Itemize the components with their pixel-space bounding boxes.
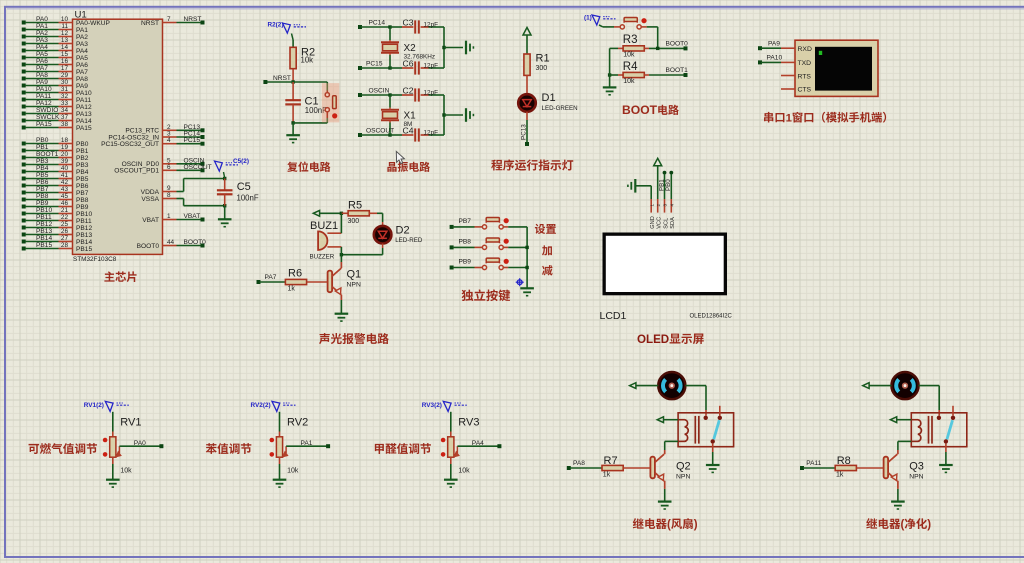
svg-text:NRST: NRST (184, 16, 202, 23)
svg-text:R5: R5 (348, 199, 362, 211)
svg-text:PA11: PA11 (36, 93, 51, 100)
svg-text:PB0: PB0 (36, 137, 49, 144)
svg-text:NPN: NPN (909, 474, 923, 481)
svg-text:32.768KHz: 32.768KHz (404, 54, 436, 61)
svg-text:PB7: PB7 (459, 218, 472, 225)
svg-text:PA8: PA8 (36, 72, 48, 79)
svg-text:PA5: PA5 (76, 55, 88, 62)
svg-text:12pF: 12pF (424, 62, 439, 69)
svg-text:PA10: PA10 (767, 55, 783, 62)
svg-text:21: 21 (61, 207, 69, 214)
svg-text:BOOT0: BOOT0 (137, 243, 160, 250)
svg-text:VCC: VCC (657, 217, 663, 229)
svg-text:PA4: PA4 (76, 48, 88, 55)
svg-text:RV3(2): RV3(2) (422, 402, 442, 409)
svg-text:10k: 10k (623, 78, 635, 85)
svg-text:10k: 10k (120, 468, 132, 475)
svg-text:PA13: PA13 (76, 111, 92, 118)
svg-text:PB9: PB9 (459, 259, 472, 266)
svg-text:T: T (650, 103, 658, 117)
svg-text:38: 38 (61, 121, 69, 128)
svg-text:PA15: PA15 (36, 121, 52, 128)
svg-text:(: ( (901, 519, 905, 531)
svg-text:PA2: PA2 (76, 34, 88, 41)
svg-text:PC15-OSC32_OUT: PC15-OSC32_OUT (101, 141, 159, 148)
svg-text:PA7: PA7 (36, 65, 48, 72)
svg-text:SWCLK: SWCLK (36, 114, 60, 121)
svg-text:VDDA: VDDA (141, 189, 160, 196)
svg-text:45: 45 (61, 193, 69, 200)
svg-text:PA9: PA9 (768, 40, 780, 47)
svg-text:46: 46 (61, 200, 69, 207)
svg-text:PB15: PB15 (36, 242, 52, 249)
svg-text:17: 17 (61, 65, 69, 72)
svg-text:PA1: PA1 (36, 23, 48, 30)
svg-text:SWDIO: SWDIO (36, 107, 58, 114)
svg-text:OLED12864I2C: OLED12864I2C (690, 314, 733, 320)
svg-text:PB0: PB0 (665, 179, 672, 191)
svg-text:PB13: PB13 (36, 228, 52, 235)
svg-text:1: 1 (167, 213, 171, 220)
svg-text:NPN: NPN (347, 282, 361, 289)
svg-text:10k: 10k (287, 468, 299, 475)
svg-text:1k: 1k (603, 472, 611, 479)
svg-text:RV1(2): RV1(2) (84, 402, 104, 409)
svg-text:1: 1 (649, 204, 654, 207)
svg-text:PA11: PA11 (806, 460, 821, 467)
svg-text:9: 9 (167, 185, 171, 192)
svg-text:31: 31 (61, 86, 69, 93)
svg-text:(1): (1) (584, 15, 592, 22)
svg-text:19: 19 (61, 144, 69, 151)
svg-text:NRST: NRST (273, 75, 291, 82)
svg-text:7: 7 (167, 16, 171, 23)
svg-text:PA12: PA12 (76, 104, 92, 111)
svg-text:12pF: 12pF (424, 129, 439, 136)
svg-text:PA3: PA3 (76, 41, 88, 48)
svg-text:11: 11 (61, 23, 68, 30)
svg-text:8M: 8M (404, 121, 413, 128)
svg-text:1k: 1k (836, 472, 844, 479)
svg-text:OSCOUT_PD1: OSCOUT_PD1 (114, 168, 159, 175)
svg-text:PB7: PB7 (76, 190, 89, 197)
svg-text:PA8: PA8 (573, 460, 585, 467)
svg-text:10k: 10k (458, 468, 470, 475)
svg-text:10k: 10k (623, 52, 635, 59)
svg-text:PB5: PB5 (76, 176, 89, 183)
svg-text:): ) (927, 519, 931, 531)
svg-text:27: 27 (61, 235, 69, 242)
svg-text:PB8: PB8 (76, 197, 89, 204)
svg-text:41: 41 (61, 172, 69, 179)
svg-text:29: 29 (61, 72, 69, 79)
svg-text:OSCOUT: OSCOUT (184, 164, 212, 171)
svg-text:X1: X1 (404, 111, 417, 122)
svg-text:PA5: PA5 (36, 51, 48, 58)
svg-text:22: 22 (61, 214, 69, 221)
svg-text:PB2: PB2 (76, 155, 89, 162)
svg-text:PB1: PB1 (36, 144, 49, 151)
svg-text:18: 18 (61, 137, 69, 144)
svg-text:PB14: PB14 (36, 235, 52, 242)
svg-text:30: 30 (61, 79, 69, 86)
svg-text:PB11: PB11 (76, 218, 92, 225)
svg-text:PB12: PB12 (76, 225, 92, 232)
svg-text:12: 12 (61, 30, 69, 37)
svg-text:GND: GND (650, 216, 656, 228)
svg-text:PA8: PA8 (76, 76, 88, 83)
svg-text:PB10: PB10 (36, 207, 52, 214)
svg-text:PB3: PB3 (36, 158, 49, 165)
svg-text:PB14: PB14 (76, 239, 92, 246)
svg-text:PA4: PA4 (36, 44, 48, 51)
svg-text:25: 25 (61, 221, 69, 228)
svg-text:R2(2): R2(2) (268, 22, 284, 29)
svg-text:14: 14 (61, 44, 69, 51)
svg-text:PB4: PB4 (36, 165, 49, 172)
svg-text:PA4: PA4 (472, 440, 484, 447)
svg-text:PB9: PB9 (76, 204, 89, 211)
svg-text:BUZZER: BUZZER (310, 253, 335, 260)
svg-text:6: 6 (167, 164, 171, 171)
svg-text:LED-GREEN: LED-GREEN (542, 105, 578, 112)
svg-text:BUZ1: BUZ1 (310, 220, 338, 232)
svg-text:PB8: PB8 (459, 238, 472, 245)
svg-text:PA1: PA1 (301, 440, 313, 447)
svg-text:O: O (631, 103, 640, 117)
svg-text:PA7: PA7 (265, 274, 277, 281)
svg-text:PC15: PC15 (366, 61, 383, 68)
svg-text:D: D (661, 333, 669, 346)
svg-text:4: 4 (167, 137, 171, 144)
svg-text:RTS: RTS (798, 74, 812, 81)
svg-text:13: 13 (61, 37, 69, 44)
svg-text:37: 37 (61, 114, 69, 121)
svg-text:PB13: PB13 (76, 232, 92, 239)
svg-text:BOOT0: BOOT0 (184, 239, 207, 246)
svg-text:PB12: PB12 (36, 221, 52, 228)
svg-text:R8: R8 (837, 455, 851, 467)
svg-text:R7: R7 (604, 455, 618, 467)
svg-text:RV1: RV1 (120, 417, 141, 429)
svg-text:3: 3 (663, 204, 668, 207)
svg-text:PB15: PB15 (76, 246, 92, 253)
svg-text:VBAT: VBAT (184, 213, 201, 220)
svg-text:1k: 1k (288, 286, 296, 293)
svg-text:4: 4 (670, 204, 675, 207)
svg-text:D2: D2 (396, 225, 410, 237)
svg-text:33: 33 (61, 100, 69, 107)
svg-text:R3: R3 (623, 34, 638, 46)
svg-text:BOOT1: BOOT1 (36, 151, 59, 158)
svg-text:B: B (622, 103, 631, 117)
svg-text:NPN: NPN (676, 474, 690, 481)
svg-text:X2: X2 (404, 43, 417, 54)
svg-text:PB6: PB6 (76, 183, 89, 190)
svg-text:RXD: RXD (798, 46, 812, 53)
svg-text:LCD1: LCD1 (600, 310, 627, 322)
svg-text:O: O (640, 103, 649, 117)
svg-text:PA0: PA0 (134, 440, 146, 447)
svg-text:PA12: PA12 (36, 100, 52, 107)
svg-text:20: 20 (61, 151, 69, 158)
svg-text:PB9: PB9 (36, 200, 49, 207)
svg-text:PC14: PC14 (369, 20, 386, 27)
svg-text:PB1: PB1 (76, 148, 89, 155)
svg-text:44: 44 (167, 239, 175, 246)
svg-text:PA10: PA10 (76, 90, 92, 97)
svg-text:LED-RED: LED-RED (395, 237, 423, 244)
svg-text:): ) (694, 519, 698, 531)
svg-text:10: 10 (61, 16, 69, 23)
svg-text:100nF: 100nF (237, 194, 259, 203)
svg-text:L: L (646, 333, 653, 346)
svg-text:CTS: CTS (798, 87, 812, 94)
svg-text:43: 43 (61, 186, 69, 193)
svg-text:PA6: PA6 (76, 62, 88, 69)
svg-text:PB5: PB5 (36, 172, 49, 179)
svg-text:32: 32 (61, 93, 69, 100)
svg-text:Q1: Q1 (347, 269, 362, 281)
svg-text:2: 2 (656, 204, 661, 207)
svg-text:300: 300 (536, 65, 548, 72)
svg-text:PA1: PA1 (76, 27, 88, 34)
svg-text:O: O (637, 333, 646, 346)
svg-text:Q2: Q2 (676, 461, 691, 473)
svg-text:BOOT0: BOOT0 (666, 41, 689, 48)
svg-text:1: 1 (786, 113, 792, 125)
svg-text:C5: C5 (237, 181, 251, 193)
svg-text:TXD: TXD (798, 60, 812, 67)
svg-text:VSSA: VSSA (141, 196, 159, 203)
svg-text:42: 42 (61, 179, 69, 186)
svg-text:D1: D1 (542, 92, 556, 104)
svg-text:PB6: PB6 (36, 179, 49, 186)
svg-text:PB11: PB11 (36, 214, 52, 221)
svg-text:C3: C3 (403, 17, 414, 27)
svg-text:R4: R4 (623, 61, 638, 73)
svg-text:STM32F103C8: STM32F103C8 (73, 256, 117, 263)
svg-text:8: 8 (167, 192, 171, 199)
svg-text:R1: R1 (536, 53, 550, 65)
svg-text:R6: R6 (288, 267, 302, 279)
svg-text:RV3: RV3 (458, 417, 479, 429)
svg-text:PA0-WKUP: PA0-WKUP (76, 20, 111, 27)
svg-text:12pF: 12pF (424, 89, 439, 96)
svg-text:PA7: PA7 (76, 69, 88, 76)
svg-text:10k: 10k (301, 56, 314, 65)
svg-text:PA10: PA10 (36, 86, 52, 93)
svg-text:15: 15 (61, 51, 69, 58)
svg-text:OSCIN: OSCIN (369, 88, 390, 95)
svg-text:PA2: PA2 (36, 30, 48, 37)
svg-text:16: 16 (61, 58, 69, 65)
svg-text:PA6: PA6 (36, 58, 48, 65)
svg-text:PA11: PA11 (76, 97, 91, 104)
svg-text:RV2(2): RV2(2) (251, 402, 271, 409)
svg-text:PA9: PA9 (36, 79, 48, 86)
svg-text:C2: C2 (403, 85, 414, 95)
svg-text:C5(2): C5(2) (233, 158, 249, 165)
svg-text:RV2: RV2 (287, 417, 308, 429)
svg-text:SCL: SCL (663, 218, 669, 229)
svg-text:(: ( (667, 519, 671, 531)
svg-text:PA3: PA3 (36, 37, 48, 44)
svg-text:12pF: 12pF (424, 21, 439, 28)
svg-text:34: 34 (61, 107, 69, 114)
svg-text:PC15: PC15 (184, 137, 201, 144)
svg-text:PB10: PB10 (76, 211, 92, 218)
svg-text:PA9: PA9 (76, 83, 88, 90)
svg-text:PB0: PB0 (76, 141, 89, 148)
svg-text:BOOT1: BOOT1 (666, 67, 689, 74)
svg-text:PA15: PA15 (76, 125, 92, 132)
svg-text:Q3: Q3 (909, 461, 924, 473)
svg-text:NRST: NRST (141, 20, 159, 27)
svg-text:PA0: PA0 (36, 16, 48, 23)
svg-text:39: 39 (61, 158, 69, 165)
svg-text:40: 40 (61, 165, 69, 172)
svg-text:PB4: PB4 (76, 169, 89, 176)
svg-text:VBAT: VBAT (142, 217, 159, 224)
svg-text:26: 26 (61, 228, 69, 235)
svg-text:PC13: PC13 (521, 124, 528, 140)
svg-text:PA14: PA14 (76, 118, 92, 125)
svg-text:PB3: PB3 (76, 162, 89, 169)
svg-text:300: 300 (348, 218, 360, 225)
svg-text:28: 28 (61, 242, 69, 249)
svg-text:PB7: PB7 (36, 186, 49, 193)
svg-text:PB8: PB8 (36, 193, 49, 200)
svg-text:SDA: SDA (670, 217, 676, 229)
